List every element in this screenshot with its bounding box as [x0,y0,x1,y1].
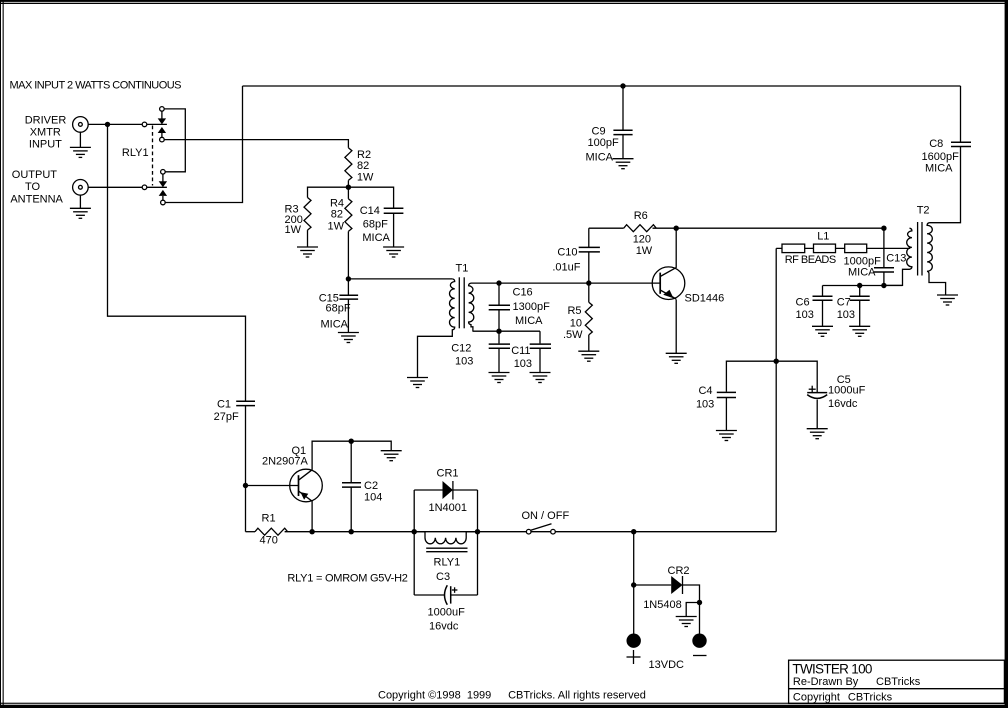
terminal contact B top [161,170,166,175]
wire Q2 collector [675,228,677,268]
wire contact B NC up to top feed [165,86,242,203]
wire C7 drop [859,286,861,296]
wire J1 to relay contact [88,123,167,125]
svg-text:RLY1: RLY1 [434,556,461,568]
svg-text:1000uF: 1000uF [828,384,866,396]
wire ground stub [686,603,699,617]
wire C9 to ground [622,135,624,159]
svg-text:C2: C2 [364,480,378,492]
svg-text:104: 104 [364,491,382,503]
wire node to C5 [776,361,817,392]
svg-text:C8: C8 [929,138,943,150]
wire input node down to C1 [108,124,246,401]
capacitor C2 [342,483,361,487]
wire R6 to collector node [653,227,677,229]
svg-text:.5W: .5W [563,329,583,341]
capacitor C6 [813,296,833,300]
svg-text:MICA: MICA [848,266,876,278]
svg-text:ANTENNA: ANTENNA [10,194,63,206]
node C16 bottom [496,329,501,334]
label C14 68pF MICA [360,205,391,244]
wire to C12 [498,331,500,343]
label C6 103 [796,296,814,321]
wire main V+ rail [775,248,777,531]
ground at C11 [530,373,551,383]
label R3 200 1W [285,204,303,237]
diode CR2 [671,576,682,594]
svg-text:RLY1: RLY1 [122,147,149,159]
svg-text:1300pF: 1300pF [513,301,551,313]
svg-text:470: 470 [260,535,278,547]
wire T1 secondary top to base rail [471,282,660,284]
label CR1 1N4001 [429,467,468,514]
terminal contact B pivot [142,185,147,190]
svg-text:TWISTER 100: TWISTER 100 [792,662,872,677]
node Q1 base [243,483,248,488]
terminal contact A top [160,107,165,112]
label C1 27pF [214,399,239,423]
label C13 1000pF MICA [844,252,907,278]
wire L1 feed rail [776,247,910,249]
svg-text:CBTricks. All rights reserved: CBTricks. All rights reserved [508,689,646,701]
ground at C15 [338,333,359,343]
ground at Q1 top rail [381,451,402,461]
node R6/collector feed [674,226,679,231]
ground at R5 [578,351,599,361]
node C4/C5 [774,359,779,364]
wire R3 to ground [307,230,309,247]
wire C2 top [350,441,352,482]
ground at J1 [70,147,91,157]
node C13 top [881,226,886,231]
wire R4 node to T1 primary [348,278,452,280]
svg-text:INPUT: INPUT [29,139,62,151]
wire J2 to relay contact [88,186,167,188]
svg-text:ON / OFF: ON / OFF [522,510,570,522]
wire C13 top [883,228,885,267]
transformer T1 secondary winding [469,283,474,331]
node CR2 anode [631,582,636,587]
resistor R3 [304,198,311,231]
terminal contact A bottom [160,137,165,142]
relay RLY1 coil [414,532,477,544]
capacitor C1 [236,401,255,405]
wire CR2 cathode [683,585,700,634]
wire C15 to ground [347,299,349,332]
svg-text:100pF: 100pF [588,137,619,149]
junction input node [105,122,110,127]
relay RLY1 dashed link [152,126,154,186]
connector J1 DRIVER XMTR INPUT [73,117,89,148]
wire node to C4 [726,361,776,392]
wire relay box right side [477,490,479,595]
node C2 bottom [349,529,354,534]
wire C7 to ground [859,300,861,326]
wire node to R4 [347,187,349,199]
wire contact A top to link [164,109,185,172]
capacitor C5 polarized [807,393,827,399]
label C16 1300pF MICA [513,286,551,327]
label C9 100pF MICA [586,126,619,164]
title block box [789,660,1005,703]
svg-text:MICA: MICA [925,163,953,175]
wire C16 top [498,283,500,304]
node CR2 branch [631,529,636,534]
wire node to C15 [347,279,349,295]
transformer T1 primary winding [418,279,455,378]
svg-text:RLY1 = OMROM G5V-H2: RLY1 = OMROM G5V-H2 [287,573,408,585]
svg-text:1600pF: 1600pF [922,151,960,163]
transformer T2 core [918,222,922,276]
transistor Q1 2N2907A [290,469,323,502]
wire node to R3 [308,187,349,197]
label J2 OUTPUT TO ANTENNA [10,169,63,206]
wire node to C14 [348,187,393,207]
relay RLY1 coil core [426,548,467,552]
terminal switch left [526,529,531,534]
svg-text:MICA: MICA [321,319,349,331]
node C16 top [496,280,501,285]
plus mark C5 [809,386,816,393]
wire R4 to T1 node [347,231,349,279]
resistor R4 [345,199,352,232]
wire T2 secondary top to C8 [930,146,961,223]
switch ON/OFF lever [531,524,552,531]
transformer T2 primary winding [886,228,912,285]
svg-text:C16: C16 [513,286,533,298]
ground at Q2 emitter [666,353,687,363]
wire R5 to ground [588,335,590,351]
svg-text:1W: 1W [328,221,345,233]
diode CR1 [443,481,453,500]
svg-text:103: 103 [455,355,473,367]
svg-text:MICA: MICA [515,315,543,327]
wire top feed rail [243,85,961,87]
svg-text:1W: 1W [636,245,653,257]
svg-text:R4: R4 [330,197,344,209]
node R2/R3/R4/C14 [346,185,351,190]
svg-text:CBTricks: CBTricks [876,676,921,688]
capacitor C3 polarized [445,585,451,605]
svg-text:Re-Drawn By: Re-Drawn By [793,676,859,688]
label C5 1000uF 16vdc [828,374,866,410]
emitter arrow Q1 [300,492,308,500]
label C4 103 [696,385,714,410]
capacitor C12 [489,344,510,348]
label R1 470 [260,513,278,547]
wire base node to Q1 [246,485,299,487]
ground at C7 [849,326,870,336]
svg-text:C13: C13 [886,252,906,264]
terminal 13VDC positive [627,634,641,648]
svg-text:13VDC: 13VDC [649,659,685,671]
svg-text:OUTPUT: OUTPUT [12,169,58,181]
note copyright line [378,689,646,701]
wire C5 to ground [816,400,818,429]
ground at C9 [613,159,634,169]
ground at T1 primary [407,378,428,388]
svg-text:CR1: CR1 [437,467,459,479]
node relay box right [475,529,480,534]
terminal 13VDC negative [692,634,706,648]
label C12 103 [451,342,473,367]
svg-text:Copyright ©1998 1999: Copyright ©1998 1999 [378,689,491,701]
capacitor C15 [339,295,358,299]
label CR2 1N5408 [643,565,689,611]
wire Q2 emitter to ground [675,299,677,353]
svg-text:DRIVER: DRIVER [25,114,67,126]
connector J2 OUTPUT TO ANTENNA [73,180,89,209]
wire R2 to node [347,180,349,187]
transistor Q2 SD1446 [652,267,685,300]
svg-text:C6: C6 [796,296,810,308]
svg-text:120: 120 [633,234,651,246]
svg-text:C12: C12 [451,342,471,354]
label Copyright CBTricks [793,691,893,703]
svg-text:C14: C14 [360,205,380,217]
minus mark 13VDC [693,655,707,657]
svg-text:C7: C7 [837,296,851,308]
node CR2 cathode ground tap [697,600,702,605]
ground at T2 secondary [937,295,958,305]
resistor R2 [345,148,352,181]
svg-text:103: 103 [514,358,532,370]
svg-text:103: 103 [837,309,855,321]
wire box bottom left [414,594,444,596]
label R6 120 1W [633,210,653,257]
ground at CR2 [676,617,697,627]
svg-text:1N5408: 1N5408 [643,599,682,611]
svg-text:Copyright: Copyright [793,691,840,703]
ground at C12 [489,373,510,383]
wire T1 secondary bottom rail [473,330,541,332]
svg-text:CBTricks: CBTricks [848,691,893,703]
label R2 82 1W [357,149,374,183]
svg-text:L1: L1 [817,231,829,243]
wire C10 up to R6 rail [588,228,590,247]
ground at C5 [807,429,828,439]
svg-text:XMTR: XMTR [30,126,61,138]
svg-text:MICA: MICA [586,151,614,163]
wire C14 to ground [393,213,395,247]
wire CR2 anode [634,584,672,586]
svg-text:MICA: MICA [362,232,390,244]
svg-text:1W: 1W [285,224,302,236]
wire bypass rail C6 C7 [823,285,903,287]
node Q1 emitter rail [309,529,314,534]
svg-text:C10: C10 [557,246,577,258]
label Q1 2N2907A [262,445,309,467]
svg-text:82: 82 [357,160,369,172]
svg-text:C11: C11 [511,345,530,357]
label C7 103 [837,296,855,321]
label C10 .01uF [552,246,580,273]
svg-text:16vdc: 16vdc [828,398,858,410]
wire C1 to base node [245,406,247,486]
svg-text:R1: R1 [262,513,276,525]
wire node up to C10 [588,252,590,283]
svg-text:C3: C3 [436,571,450,583]
wire base node down to R1 [245,486,247,532]
wire bottom rail [285,531,777,533]
node C7 [857,283,862,288]
ground at C14 [383,247,404,257]
wire contact A NC to R2 [164,140,348,148]
wire C12 to ground [498,348,500,372]
relay RLY1 contact B [159,174,167,200]
label J1 DRIVER XMTR INPUT [25,114,67,150]
resistor R1 [255,528,288,535]
ground at J2 [70,208,91,218]
terminal contact B bottom [161,200,166,205]
node base/C10/R5 [586,280,591,285]
wire box bottom right [451,594,478,596]
svg-text:1000uF: 1000uF [428,607,466,619]
label R5 10 .5W [563,305,583,341]
wire C16 bottom [498,310,500,332]
svg-text:68pF: 68pF [363,219,388,231]
label R4 82 1W [328,197,345,232]
transformer T1 core [459,277,464,328]
capacitor C10 [579,247,600,252]
ground at R3 [297,247,318,257]
terminal contact A pivot [142,122,147,127]
wire box top right [453,489,478,491]
ground at C4 [716,431,737,441]
svg-text:R5: R5 [567,305,581,317]
wire to C11 [539,331,541,343]
svg-text:1N4001: 1N4001 [429,502,468,514]
svg-text:TO: TO [25,181,41,193]
relay RLY1 contact A [158,111,166,137]
svg-text:C4: C4 [698,385,712,397]
node C9 top rail [620,83,625,88]
wire Q1 collector top rail to ground jog [312,441,391,470]
svg-text:82: 82 [331,209,343,221]
svg-text:2N2907A: 2N2907A [262,455,309,467]
wire relay box left side [413,490,415,595]
svg-text:RF BEADS: RF BEADS [785,254,837,266]
wire collector feed to T2 [676,227,884,229]
svg-text:T1: T1 [456,262,469,274]
transformer T2 secondary winding [927,223,946,295]
wire CR2 branch down [633,532,635,634]
capacitor C11 [530,344,551,348]
svg-text:C9: C9 [592,126,606,138]
wire bottom rail left [246,531,256,533]
wire C2 bottom [350,487,352,532]
svg-text:CR2: CR2 [668,565,690,577]
svg-text:103: 103 [696,398,714,410]
wire R5 top [588,283,590,302]
label Re-Drawn By CBTricks [793,676,921,688]
capacitor C14 [384,208,404,213]
svg-text:27pF: 27pF [214,411,239,423]
svg-text:10: 10 [570,317,582,329]
plus mark 13VDC [627,650,641,664]
capacitor C16 [489,305,510,310]
wire C13 bottom [883,272,885,286]
capacitor C4 [717,392,736,397]
capacitor C8 [951,142,971,146]
label L1 RF BEADS [785,231,837,267]
wire box top left [414,489,442,491]
inductor L1 RF beads [782,244,867,253]
svg-text:103: 103 [796,309,814,321]
ground at C6 [812,326,833,336]
node relay box left [412,529,417,534]
capacitor C7 [850,296,870,300]
label C15 68pF MICA [319,292,351,330]
capacitor C9 [613,130,632,134]
svg-text:1W: 1W [357,171,374,183]
wire R6 rail left part [589,227,624,229]
svg-text:C1: C1 [217,399,231,411]
wire C6 to ground [822,300,824,326]
svg-text:16vdc: 16vdc [429,620,459,632]
node C2 top [349,439,354,444]
label C3 1000uF 16vdc [428,607,466,633]
node R4 bottom / T1 top [346,276,351,281]
wire C9 top [622,86,624,130]
svg-text:SD1446: SD1446 [685,292,725,304]
svg-text:R6: R6 [634,210,648,222]
node C13 bottom [881,283,886,288]
resistor R5 [585,302,592,335]
wire C6 drop [822,286,824,296]
plus mark C3 [452,587,458,593]
label C8 1600pF MICA [922,138,960,175]
label C11 103 [511,345,532,370]
terminal switch right [551,529,556,534]
wire C8 top to feed rail [960,86,962,142]
svg-text:68pF: 68pF [326,302,351,314]
capacitor C13 [874,268,894,272]
svg-text:.01uF: .01uF [552,261,580,273]
emitter arrow Q2 [663,290,673,298]
svg-text:MAX INPUT 2 WATTS CONTINUOUS: MAX INPUT 2 WATTS CONTINUOUS [10,80,182,92]
resistor R6 [624,225,657,232]
wire C4 to ground [725,398,727,431]
label C2 104 [364,480,382,503]
svg-text:T2: T2 [917,204,930,216]
wire Q1 emitter down to rail [311,501,313,532]
wire C11 to ground [539,348,541,372]
